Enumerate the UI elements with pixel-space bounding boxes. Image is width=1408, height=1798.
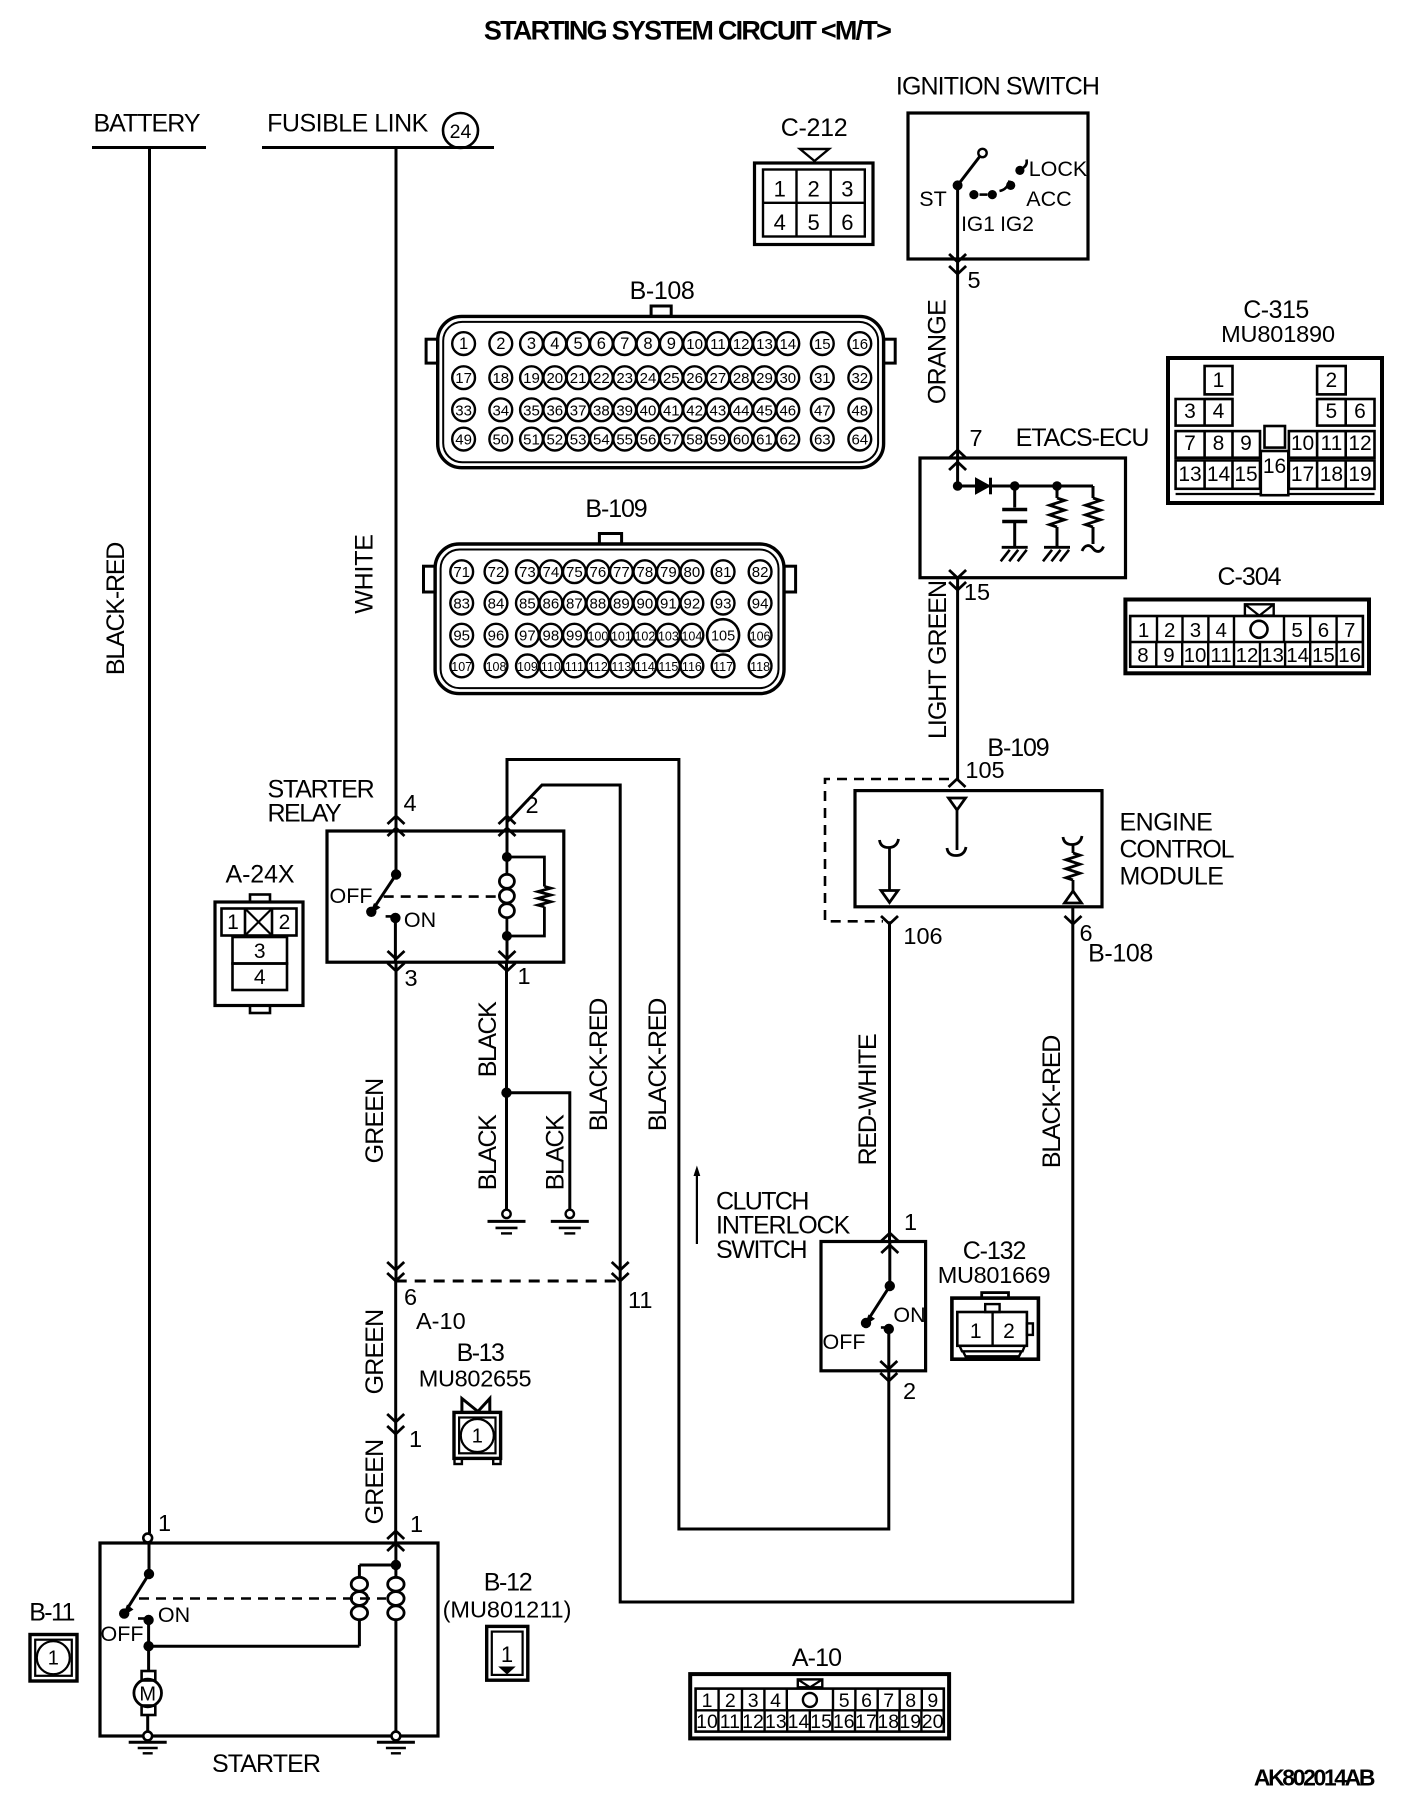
svg-text:15: 15 [1312, 644, 1335, 667]
svg-text:STARTER: STARTER [212, 1750, 320, 1778]
svg-text:2: 2 [1326, 369, 1338, 392]
wire ignition pin5 ORANGE [924, 254, 981, 458]
svg-text:4: 4 [1213, 400, 1225, 423]
svg-text:20: 20 [546, 370, 563, 387]
svg-text:5: 5 [839, 1690, 850, 1712]
svg-text:BLACK: BLACK [542, 1114, 570, 1190]
svg-text:B-108: B-108 [1088, 940, 1153, 968]
svg-text:104: 104 [681, 629, 702, 643]
starter relay [268, 776, 564, 963]
node B-109 pin 105 into ECM [949, 734, 1049, 787]
connector C-304 [1125, 563, 1369, 673]
svg-text:51: 51 [523, 432, 540, 449]
svg-text:41: 41 [663, 402, 680, 419]
svg-text:16: 16 [851, 336, 868, 353]
svg-text:13: 13 [1261, 644, 1284, 667]
wire ETACS pin15 LIGHT GREEN [924, 570, 990, 779]
clutch interlock switch pin 1 [881, 1209, 917, 1253]
svg-text:B-12: B-12 [484, 1569, 532, 1597]
svg-text:71: 71 [453, 564, 470, 581]
ground under starter coil [377, 1732, 415, 1754]
svg-text:17: 17 [455, 370, 472, 387]
svg-text:1: 1 [48, 1648, 59, 1670]
svg-text:19: 19 [899, 1711, 921, 1733]
svg-text:110: 110 [541, 660, 561, 674]
svg-text:IGNITION SWITCH: IGNITION SWITCH [896, 73, 1099, 101]
wire inside ETACS [956, 458, 959, 486]
svg-text:62: 62 [779, 432, 796, 449]
starter switch [101, 1543, 191, 1647]
svg-text:A-24X: A-24X [226, 861, 295, 889]
resistor R1 in ETACS [1050, 486, 1065, 546]
svg-text:A-10: A-10 [416, 1308, 466, 1334]
svg-text:102: 102 [634, 629, 655, 643]
svg-text:MODULE: MODULE [1120, 863, 1224, 891]
ground (hatch) under capacitor [1002, 546, 1028, 549]
node FUSIBLE LINK 24 [262, 110, 494, 149]
relay pin 3 [388, 936, 508, 991]
svg-text:2: 2 [1003, 1320, 1015, 1343]
junction A-10 dashed link pins 6 and 11 [387, 1262, 652, 1334]
svg-text:49: 49 [455, 432, 472, 449]
svg-text:22: 22 [593, 370, 610, 387]
svg-text:43: 43 [710, 402, 727, 419]
relay pin 1 [499, 951, 531, 989]
svg-text:ACC: ACC [1026, 187, 1071, 211]
svg-text:B-13: B-13 [457, 1339, 504, 1367]
svg-text:MU801669: MU801669 [938, 1262, 1051, 1288]
svg-text:1: 1 [409, 1426, 422, 1452]
connector A-10 [690, 1644, 949, 1738]
clutch interlock switch box [821, 1242, 926, 1371]
svg-text:46: 46 [779, 402, 796, 419]
svg-text:BLACK-RED: BLACK-RED [644, 999, 672, 1131]
svg-text:17: 17 [1291, 463, 1314, 486]
svg-text:38: 38 [593, 402, 610, 419]
svg-text:B-109: B-109 [585, 495, 646, 523]
svg-text:12: 12 [1236, 644, 1259, 667]
svg-text:11: 11 [1210, 644, 1231, 667]
svg-text:12: 12 [742, 1711, 764, 1733]
svg-text:(MU801211): (MU801211) [443, 1597, 572, 1623]
svg-text:STARTING SYSTEM CIRCUIT <M/T>: STARTING SYSTEM CIRCUIT <M/T> [484, 16, 891, 46]
svg-text:10: 10 [696, 1711, 718, 1733]
svg-text:92: 92 [684, 595, 701, 612]
svg-text:60: 60 [733, 432, 750, 449]
connector B-13 MU802655 [419, 1339, 532, 1464]
starter dashed link [139, 1597, 386, 1600]
svg-text:26: 26 [686, 370, 703, 387]
svg-text:116: 116 [682, 660, 702, 674]
svg-text:54: 54 [593, 432, 610, 449]
svg-text:1: 1 [501, 1642, 513, 1667]
svg-text:99: 99 [566, 627, 583, 644]
svg-text:30: 30 [779, 370, 796, 387]
svg-text:57: 57 [663, 432, 680, 449]
svg-text:RED-WHITE: RED-WHITE [854, 1034, 882, 1165]
svg-text:6: 6 [1354, 400, 1366, 423]
relay switch [330, 831, 437, 962]
svg-text:2: 2 [525, 792, 538, 818]
svg-text:ENGINE: ENGINE [1120, 809, 1213, 837]
svg-text:15: 15 [1234, 463, 1257, 486]
svg-text:5: 5 [1326, 400, 1338, 423]
svg-text:3: 3 [748, 1690, 759, 1712]
clutch interlock switch label and arrow [694, 1166, 851, 1265]
svg-text:86: 86 [543, 595, 560, 612]
wire ECM 106 RED-WHITE [854, 921, 890, 1241]
relay coil [499, 831, 514, 941]
ETACS-ECU module [920, 424, 1148, 578]
relay dashed link [384, 895, 498, 898]
svg-text:11: 11 [720, 1711, 740, 1733]
svg-text:113: 113 [611, 660, 631, 674]
svg-text:5: 5 [574, 335, 583, 353]
connector C-132 MU801669 [938, 1237, 1051, 1359]
svg-text:6: 6 [861, 1690, 872, 1712]
svg-text:3: 3 [527, 335, 536, 353]
svg-text:98: 98 [543, 627, 560, 644]
svg-text:85: 85 [519, 595, 536, 612]
svg-text:72: 72 [488, 564, 505, 581]
svg-text:17: 17 [855, 1711, 877, 1733]
svg-text:80: 80 [684, 564, 701, 581]
svg-text:OFF: OFF [823, 1330, 866, 1354]
svg-text:1: 1 [472, 1426, 483, 1448]
svg-text:LOCK: LOCK [1029, 157, 1088, 181]
svg-text:14: 14 [1286, 644, 1309, 667]
svg-text:83: 83 [453, 595, 470, 612]
svg-text:ON: ON [404, 908, 436, 932]
ground under starter motor [129, 1732, 167, 1754]
svg-text:36: 36 [546, 402, 563, 419]
svg-text:BLACK-RED: BLACK-RED [585, 999, 613, 1131]
ECM pin labels 106 / 6 / B-108 [881, 916, 1153, 968]
svg-text:93: 93 [715, 595, 732, 612]
svg-text:FUSIBLE LINK: FUSIBLE LINK [267, 110, 429, 138]
svg-text:55: 55 [616, 432, 633, 449]
svg-text:7: 7 [1184, 432, 1196, 455]
svg-text:2: 2 [496, 335, 505, 353]
svg-text:1: 1 [774, 177, 786, 202]
connector C-212 [755, 114, 874, 245]
svg-text:7: 7 [969, 425, 982, 451]
ground (hatch) under R1 [1044, 546, 1070, 549]
svg-text:56: 56 [640, 432, 657, 449]
svg-text:OFF: OFF [330, 884, 373, 908]
wire ECM 6 BLACK-RED loop to pin 11 [585, 907, 1073, 1602]
svg-text:11: 11 [628, 1287, 652, 1313]
svg-text:105: 105 [711, 629, 735, 645]
svg-text:44: 44 [733, 402, 750, 419]
diode D1 in ETACS [976, 478, 991, 495]
svg-text:8: 8 [643, 335, 652, 353]
pin 105 of B-109 (highlighted) [707, 619, 739, 651]
connector B-12 (MU801211) [443, 1569, 572, 1681]
svg-text:6: 6 [597, 335, 606, 353]
svg-text:WHITE: WHITE [351, 534, 379, 614]
svg-text:7: 7 [883, 1690, 894, 1712]
wire relay pin1 BLACK to grounds [474, 962, 570, 1209]
svg-text:C-315: C-315 [1243, 296, 1309, 324]
svg-text:BATTERY: BATTERY [94, 110, 201, 138]
svg-text:106: 106 [903, 923, 942, 949]
svg-text:91: 91 [660, 595, 677, 612]
svg-text:24: 24 [450, 121, 472, 143]
svg-text:C-212: C-212 [781, 114, 848, 142]
svg-text:A-10: A-10 [792, 1644, 841, 1672]
ECM pin 105 internal [947, 798, 966, 856]
svg-text:M: M [139, 1684, 156, 1706]
svg-text:12: 12 [733, 336, 750, 353]
svg-text:37: 37 [570, 402, 587, 419]
svg-text:16: 16 [833, 1711, 855, 1733]
svg-text:4: 4 [254, 966, 266, 989]
svg-text:89: 89 [613, 595, 630, 612]
svg-text:AK802014AB: AK802014AB [1254, 1765, 1375, 1791]
node BATTERY [92, 110, 206, 148]
svg-text:32: 32 [851, 370, 868, 387]
svg-text:108: 108 [486, 660, 507, 674]
wire relay pin2 BLACK-RED loop to clutch pin 2 [507, 760, 889, 1530]
svg-text:6: 6 [1318, 619, 1329, 642]
svg-text:4: 4 [770, 1690, 781, 1712]
svg-text:114: 114 [635, 660, 655, 674]
relay resistor [507, 857, 551, 936]
svg-text:53: 53 [570, 432, 587, 449]
svg-text:9: 9 [1240, 432, 1252, 455]
svg-text:ON: ON [158, 1603, 190, 1627]
svg-text:8: 8 [1213, 432, 1225, 455]
svg-text:45: 45 [756, 402, 773, 419]
svg-text:3: 3 [404, 965, 417, 991]
svg-text:OFF: OFF [101, 1622, 144, 1646]
svg-text:1: 1 [459, 335, 468, 353]
svg-text:15: 15 [814, 336, 831, 353]
relay pin 2 [499, 792, 539, 836]
svg-text:5: 5 [807, 210, 819, 235]
svg-text:4: 4 [774, 210, 786, 235]
battery wire terminal 1 at starter [143, 1510, 171, 1542]
ignition switch [896, 73, 1099, 260]
svg-text:19: 19 [523, 370, 540, 387]
wire fusible link WHITE [351, 148, 397, 832]
svg-text:RELAY: RELAY [268, 800, 342, 828]
svg-text:58: 58 [686, 432, 703, 449]
svg-text:107: 107 [451, 660, 472, 674]
svg-text:21: 21 [570, 370, 587, 387]
svg-text:18: 18 [1320, 463, 1343, 486]
wire GREEN into starter [394, 1543, 397, 1565]
svg-text:GREEN: GREEN [361, 1310, 389, 1395]
svg-text:48: 48 [851, 402, 868, 419]
svg-text:ETACS-ECU: ETACS-ECU [1016, 424, 1149, 452]
svg-text:96: 96 [488, 627, 505, 644]
svg-text:59: 59 [710, 432, 727, 449]
svg-text:5: 5 [967, 267, 980, 293]
svg-text:LIGHT GREEN: LIGHT GREEN [924, 581, 952, 739]
svg-text:50: 50 [492, 432, 509, 449]
svg-text:2: 2 [807, 177, 819, 202]
svg-text:3: 3 [841, 177, 853, 202]
svg-text:8: 8 [905, 1690, 916, 1712]
svg-text:1: 1 [970, 1320, 982, 1343]
clutch interlock switch pin 2 [880, 1361, 916, 1404]
svg-text:1: 1 [1213, 369, 1225, 392]
ECM pin 106 internal [880, 839, 899, 903]
svg-text:15: 15 [964, 579, 990, 605]
svg-text:78: 78 [637, 564, 654, 581]
svg-text:23: 23 [616, 370, 633, 387]
svg-text:6: 6 [404, 1284, 417, 1310]
svg-text:20: 20 [922, 1711, 944, 1733]
svg-text:10: 10 [686, 336, 703, 353]
connector A-24X [215, 861, 303, 1014]
svg-text:88: 88 [590, 595, 607, 612]
starter motor M [134, 1620, 162, 1732]
svg-text:82: 82 [752, 564, 769, 581]
svg-text:18: 18 [877, 1711, 899, 1733]
svg-text:118: 118 [750, 660, 770, 674]
svg-text:3: 3 [1184, 400, 1196, 423]
svg-text:12: 12 [1348, 432, 1371, 455]
svg-text:76: 76 [590, 564, 607, 581]
svg-text:1: 1 [227, 911, 239, 934]
svg-text:18: 18 [492, 370, 509, 387]
svg-text:111: 111 [565, 660, 584, 674]
svg-text:13: 13 [1178, 463, 1201, 486]
svg-text:1: 1 [1138, 619, 1149, 642]
svg-text:14: 14 [788, 1711, 810, 1733]
svg-text:33: 33 [455, 402, 472, 419]
svg-text:8: 8 [1137, 644, 1148, 667]
svg-text:42: 42 [686, 402, 703, 419]
ground under right BLACK wire [566, 1210, 574, 1218]
svg-text:106: 106 [750, 629, 771, 643]
svg-text:1: 1 [410, 1511, 423, 1537]
svg-text:3: 3 [1190, 619, 1201, 642]
svg-text:81: 81 [715, 564, 732, 581]
svg-text:IG1: IG1 [961, 213, 995, 236]
svg-text:MU801890: MU801890 [1221, 321, 1335, 347]
svg-text:115: 115 [658, 660, 678, 674]
svg-text:63: 63 [814, 432, 831, 449]
svg-text:77: 77 [613, 564, 630, 581]
svg-text:39: 39 [616, 402, 633, 419]
svg-text:94: 94 [752, 595, 769, 612]
starter box [100, 1543, 438, 1778]
svg-text:34: 34 [492, 402, 509, 419]
svg-text:C-132: C-132 [963, 1237, 1026, 1265]
relay pin 4 [388, 790, 417, 836]
svg-text:52: 52 [546, 432, 563, 449]
svg-text:7: 7 [1344, 619, 1355, 642]
svg-text:9: 9 [667, 335, 676, 353]
resistor R2 in ETACS [1082, 486, 1104, 551]
wire GREEN from junction to starter [361, 1281, 423, 1551]
svg-text:13: 13 [756, 336, 773, 353]
svg-text:97: 97 [519, 627, 536, 644]
svg-text:2: 2 [725, 1690, 736, 1712]
svg-text:24: 24 [640, 370, 657, 387]
svg-text:BLACK-RED: BLACK-RED [1038, 1036, 1066, 1168]
svg-text:1: 1 [517, 963, 530, 989]
ECM pin 6 internal [1063, 836, 1082, 903]
connector B-11 [29, 1599, 77, 1682]
svg-text:13: 13 [765, 1711, 787, 1733]
svg-text:4: 4 [403, 790, 416, 816]
svg-text:84: 84 [488, 595, 505, 612]
junction dots in ETACS [953, 481, 963, 491]
svg-text:11: 11 [1320, 432, 1342, 455]
svg-text:109: 109 [517, 660, 538, 674]
wire battery BLACK-RED [102, 148, 150, 1534]
svg-text:GREEN: GREEN [361, 1440, 389, 1525]
svg-text:19: 19 [1348, 463, 1371, 486]
svg-text:ST: ST [919, 187, 946, 211]
svg-text:9: 9 [1163, 644, 1174, 667]
svg-text:3: 3 [254, 940, 266, 963]
capacitor C1 in ETACS [1002, 486, 1027, 546]
svg-text:16: 16 [1338, 644, 1361, 667]
svg-text:6: 6 [841, 210, 853, 235]
svg-text:14: 14 [1207, 463, 1231, 486]
svg-text:BLACK: BLACK [474, 1114, 502, 1190]
svg-text:5: 5 [1291, 619, 1302, 642]
svg-text:BLACK: BLACK [474, 1001, 502, 1077]
svg-text:1: 1 [702, 1690, 713, 1712]
svg-text:10: 10 [1184, 644, 1207, 667]
svg-text:95: 95 [453, 627, 470, 644]
wire relay pin3 GREEN [361, 962, 396, 1281]
svg-text:27: 27 [710, 370, 727, 387]
svg-text:2: 2 [903, 1378, 916, 1404]
svg-text:15: 15 [810, 1711, 832, 1733]
svg-text:31: 31 [814, 370, 831, 387]
svg-text:SWITCH: SWITCH [716, 1236, 807, 1264]
svg-text:35: 35 [523, 402, 540, 419]
engine control module box [855, 791, 1235, 907]
svg-text:16: 16 [1263, 455, 1286, 478]
svg-text:112: 112 [588, 660, 608, 674]
svg-text:100: 100 [587, 629, 608, 643]
svg-text:4: 4 [1215, 619, 1226, 642]
svg-text:B-108: B-108 [630, 277, 695, 305]
connector B-108 [426, 277, 895, 468]
svg-text:64: 64 [851, 432, 868, 449]
svg-text:ORANGE: ORANGE [924, 300, 952, 404]
svg-text:61: 61 [756, 432, 773, 449]
svg-text:79: 79 [660, 564, 677, 581]
svg-text:117: 117 [713, 660, 733, 674]
svg-text:29: 29 [756, 370, 773, 387]
svg-text:14: 14 [779, 336, 796, 353]
svg-text:10: 10 [1291, 432, 1314, 455]
svg-text:25: 25 [663, 370, 680, 387]
svg-text:CONTROL: CONTROL [1120, 836, 1235, 864]
svg-text:1: 1 [158, 1510, 171, 1536]
svg-text:B-11: B-11 [29, 1599, 74, 1627]
svg-text:C-304: C-304 [1217, 563, 1281, 591]
starter coils [149, 1560, 404, 1732]
svg-text:28: 28 [733, 370, 750, 387]
svg-text:90: 90 [637, 595, 654, 612]
connector C-315 MU801890 [1168, 296, 1382, 503]
ECM dashed boundary [825, 779, 949, 921]
wire diagonal from relay pin2 to pin-11 wire [507, 785, 620, 1281]
svg-text:2: 2 [1164, 619, 1175, 642]
svg-text:GREEN: GREEN [361, 1079, 389, 1164]
